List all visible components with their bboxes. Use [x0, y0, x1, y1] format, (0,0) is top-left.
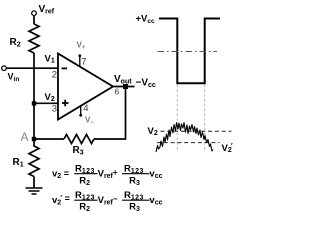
dashed line V2' level — [157, 142, 220, 144]
op-amp U1 triangle — [58, 54, 113, 120]
node output junction — [123, 84, 128, 89]
terminal Vin — [2, 66, 7, 71]
svg-text:6: 6 — [115, 86, 120, 96]
node A — [32, 137, 36, 141]
equation line 2: v2' = R123/R2 Vref - R123/R3 vcc — [52, 190, 163, 213]
wire output — [113, 86, 135, 88]
wire node to pin 3 — [34, 102, 58, 104]
svg-text:7: 7 — [81, 57, 86, 68]
svg-text:A: A — [21, 130, 29, 144]
equation line 1: v2 = R123/R2 Vref + R123/R3 vcc — [52, 164, 163, 187]
pin 4 stub — [80, 106, 82, 115]
waveform square wave Vout — [159, 19, 220, 84]
terminal Vref — [32, 11, 37, 16]
dashed vertical right — [204, 85, 206, 152]
resistor R1 — [29, 141, 39, 188]
resistor R2 — [29, 24, 39, 53]
noisy input signal v2 — [156, 123, 213, 153]
plus sign (non-inverting input) — [62, 100, 69, 107]
ground — [26, 188, 43, 194]
wire Vref to R2 — [33, 16, 35, 25]
dashed line V2 level — [161, 130, 232, 132]
pin 7 stub — [79, 56, 81, 67]
svg-text:3: 3 — [52, 104, 57, 115]
svg-text:4: 4 — [83, 103, 88, 114]
resistor R3 — [64, 135, 94, 144]
node V2 junction — [32, 101, 36, 105]
axis dash-dot center line — [158, 51, 218, 53]
svg-text:v2 =: v2 = — [52, 169, 69, 181]
svg-text:2: 2 — [52, 69, 57, 80]
svg-text:V2′: V2′ — [222, 143, 233, 154]
wire node A to R3 — [36, 138, 64, 140]
wire R2 down to node A (crosses Vin wire) — [33, 53, 35, 139]
minus sign (inverting input) — [62, 67, 68, 69]
wire feedback (output node down and left to R3) — [94, 88, 126, 139]
dashed vertical left — [176, 85, 178, 152]
wire Vin to pin 2 — [6, 67, 58, 69]
